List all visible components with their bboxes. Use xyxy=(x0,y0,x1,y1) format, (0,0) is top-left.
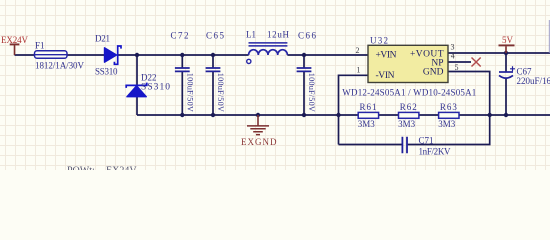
wire top rail mid segment xyxy=(118,54,249,56)
svg-text:WD12-24S05A1 / WD10-24S05A1: WD12-24S05A1 / WD10-24S05A1 xyxy=(342,87,476,97)
wire pin5 GND down xyxy=(448,72,490,116)
svg-text:3M3: 3M3 xyxy=(438,119,456,129)
inductor L1 xyxy=(246,30,290,64)
fuse F1 xyxy=(35,40,85,70)
svg-text:SS310: SS310 xyxy=(95,67,118,77)
wire top rail left segment xyxy=(15,54,105,56)
power port 5V xyxy=(499,35,515,53)
svg-text:EXGND: EXGND xyxy=(241,137,277,147)
svg-text:GND: GND xyxy=(423,68,444,78)
svg-text:1812/1A/30V: 1812/1A/30V xyxy=(35,60,85,70)
wire R62-R63 xyxy=(419,114,439,116)
svg-text:EX24V: EX24V xyxy=(106,165,137,170)
svg-text:5: 5 xyxy=(455,63,459,72)
capacitor C65 xyxy=(206,31,225,112)
svg-text:D22: D22 xyxy=(141,73,157,83)
svg-text:3M3: 3M3 xyxy=(398,119,416,129)
wire top rail right segment xyxy=(287,54,368,56)
wire C71 row right xyxy=(408,115,490,145)
wire pin1 to bottom and C71 left column xyxy=(339,75,369,144)
wire R61-R62 xyxy=(379,114,399,116)
svg-text:12uH: 12uH xyxy=(267,30,290,40)
svg-text:2: 2 xyxy=(356,46,360,55)
wire bottom EXGND rail xyxy=(137,114,358,116)
svg-text:D21: D21 xyxy=(95,33,110,43)
wire C65 column xyxy=(212,55,214,115)
wire faint right-edge stub xyxy=(548,20,550,53)
wire 5V output rail xyxy=(448,52,550,54)
svg-text:SS310: SS310 xyxy=(141,82,170,92)
wire C71 row left xyxy=(339,144,402,146)
svg-text:C71: C71 xyxy=(419,135,434,145)
capacitor C72 xyxy=(171,31,195,112)
svg-text:-VIN: -VIN xyxy=(376,71,395,81)
diode D22 SS310 xyxy=(126,73,170,97)
svg-text:4: 4 xyxy=(451,52,455,61)
svg-text:R62: R62 xyxy=(400,102,417,112)
diode D21 SS310 xyxy=(95,33,121,76)
ground EXGND xyxy=(241,115,277,147)
svg-text:F1: F1 xyxy=(35,40,45,50)
power port EX24V xyxy=(1,35,29,55)
svg-text:1: 1 xyxy=(357,66,361,75)
wire D22 column upper xyxy=(136,55,138,85)
op-amp U32 DC-DC module body xyxy=(342,35,476,97)
wire R63 to right edge xyxy=(459,114,550,116)
wire C72 column xyxy=(181,55,183,115)
svg-text:R61: R61 xyxy=(360,102,377,112)
svg-text:EX24V: EX24V xyxy=(1,35,29,45)
wire C67 column xyxy=(505,53,507,115)
svg-text:220uF/16: 220uF/16 xyxy=(517,76,550,86)
resistor R63 xyxy=(438,102,459,129)
svg-text:C72: C72 xyxy=(171,31,189,41)
svg-text:C66: C66 xyxy=(298,31,317,41)
resistor R61 xyxy=(358,102,379,129)
svg-text:5V: 5V xyxy=(502,35,514,45)
svg-text:100uF/50V: 100uF/50V xyxy=(216,73,225,112)
capacitor C66 xyxy=(297,31,317,112)
svg-text:3M3: 3M3 xyxy=(358,119,376,129)
svg-text:POWt:: POWt: xyxy=(67,165,95,170)
no-connect X on pin 4 xyxy=(472,58,481,67)
wire C66 column xyxy=(303,55,305,115)
wire D22 column lower xyxy=(136,97,138,115)
capacitor C67 polarized xyxy=(499,66,550,86)
svg-text:L1: L1 xyxy=(246,30,256,40)
svg-text:+VIN: +VIN xyxy=(376,51,397,61)
svg-text:1nF/2KV: 1nF/2KV xyxy=(419,147,452,157)
svg-text:100uF/50V: 100uF/50V xyxy=(307,73,316,112)
resistor R62 xyxy=(398,102,419,129)
capacitor C71 xyxy=(402,135,451,156)
svg-text:100uF/50V: 100uF/50V xyxy=(185,73,194,112)
wire pin4 stub xyxy=(448,61,471,63)
svg-text:3: 3 xyxy=(451,42,455,51)
background grid xyxy=(0,0,550,170)
svg-text:C65: C65 xyxy=(206,31,225,41)
junction dots xyxy=(135,51,508,117)
svg-text:R63: R63 xyxy=(440,102,458,112)
svg-text:U32: U32 xyxy=(370,35,388,45)
